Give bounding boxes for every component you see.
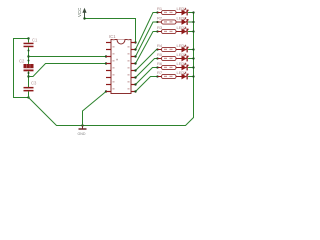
resistor R1 [156,10,176,14]
junction dot GND [81,124,83,126]
svg-text:R1: R1 [157,6,163,11]
IC IC1 (DIP-16) body [111,39,131,93]
wire LED1 cathode to ground bus [188,12,193,14]
junction dot [28,50,30,52]
junction dot bus row R2 [192,21,194,23]
junction dot VCC [83,17,85,19]
svg-text:R3: R3 [157,25,163,30]
resistor R5 [156,56,176,60]
wire left rail (C1 top to chain bottom) [14,39,29,98]
svg-text:LED4: LED4 [177,43,188,48]
LED LED7 [176,72,189,79]
svg-text:LED7: LED7 [177,70,188,75]
LED LED6 [176,63,189,70]
wire LED7 cathode to ground bus [188,76,193,78]
junction dot [28,60,30,62]
wire LED2 cathode to ground bus [188,21,193,23]
VCC supply symbol [77,8,87,19]
wire LED5 cathode to ground bus [188,58,193,60]
resistor R7 [156,74,176,78]
svg-text:IC1: IC1 [109,34,116,39]
svg-text:LED3: LED3 [177,25,188,30]
junction dot bus row R7 [192,75,194,77]
wire to IC pin 4 [29,64,107,77]
ground symbol GND [78,126,87,137]
IC pin numbers (tiny) [113,39,130,89]
junction dot [27,75,29,77]
LED LED2 [176,18,189,25]
svg-text:C3: C3 [31,81,37,86]
svg-text:LED1: LED1 [177,6,188,11]
wire LED6 cathode to ground bus [188,67,193,69]
junction dot at IC pin8 [105,90,107,92]
resistor R4 [156,47,176,51]
IC right pins [131,43,136,92]
svg-text:R2: R2 [157,15,163,20]
svg-text:LED6: LED6 [177,61,188,66]
wire IC pin to R1 [136,13,158,50]
junction dot bus row R5 [192,57,194,59]
wire IC pin to R4 [136,50,158,71]
wire chain C1 lead top [28,39,30,43]
svg-text:GND: GND [78,132,86,136]
junction dot [27,55,29,57]
svg-text:VCC: VCC [77,8,82,17]
wire ground bus [29,13,194,126]
svg-text:C1: C1 [32,38,38,43]
junction dot chain top [27,37,29,39]
svg-text:LED2: LED2 [177,15,188,20]
resistor R2 [156,20,176,24]
svg-text:R4: R4 [157,43,163,48]
wire IC pin to R6 [136,68,158,85]
wire VCC horizontal/vertical to IC pin16 [85,19,136,43]
capacitor C3 [24,87,34,92]
svg-text:R7: R7 [157,70,163,75]
wire IC pin to R3 [136,32,158,64]
wire IC pin to R5 [136,59,158,78]
resistor R6 [156,65,176,69]
wire IC pin8 to ground bus [83,92,107,126]
wire chain C3 bottom [28,91,30,97]
wire chain C1 to C2 [28,47,30,64]
wire chain C2 to C3 [28,71,30,87]
junction dot at IC pin16 [134,41,136,43]
resistor R3 [156,29,176,33]
svg-text:C2: C2 [19,59,25,64]
junction dot bus row R6 [192,66,194,68]
junction dot chain bottom [27,96,29,98]
junction dot at IC pin3 [105,55,107,57]
svg-text:LED5: LED5 [177,52,188,57]
wire to IC pin 3 [29,56,107,58]
capacitor C1 [24,43,34,48]
junction dot bus row R1 [192,11,194,13]
LED LED3 [176,27,189,34]
wire LED4 cathode to ground bus [188,49,193,51]
wire LED3 cathode to ground bus [188,31,193,33]
svg-text:R5: R5 [157,52,163,57]
wire IC pin to R7 [136,77,158,92]
svg-text:R6: R6 [157,61,163,66]
junction dot at IC pin4 [105,62,107,64]
junction dot bus row R4 [192,48,194,50]
LED LED4 [176,45,189,52]
wire IC pin to R2 [136,22,158,57]
junction dot [28,72,30,74]
junction dot bus row R3 [192,30,194,32]
capacitor C2 (polarized) [24,64,34,71]
LED LED1 [176,8,189,15]
IC left pins [106,43,111,92]
LED LED5 [176,54,189,61]
